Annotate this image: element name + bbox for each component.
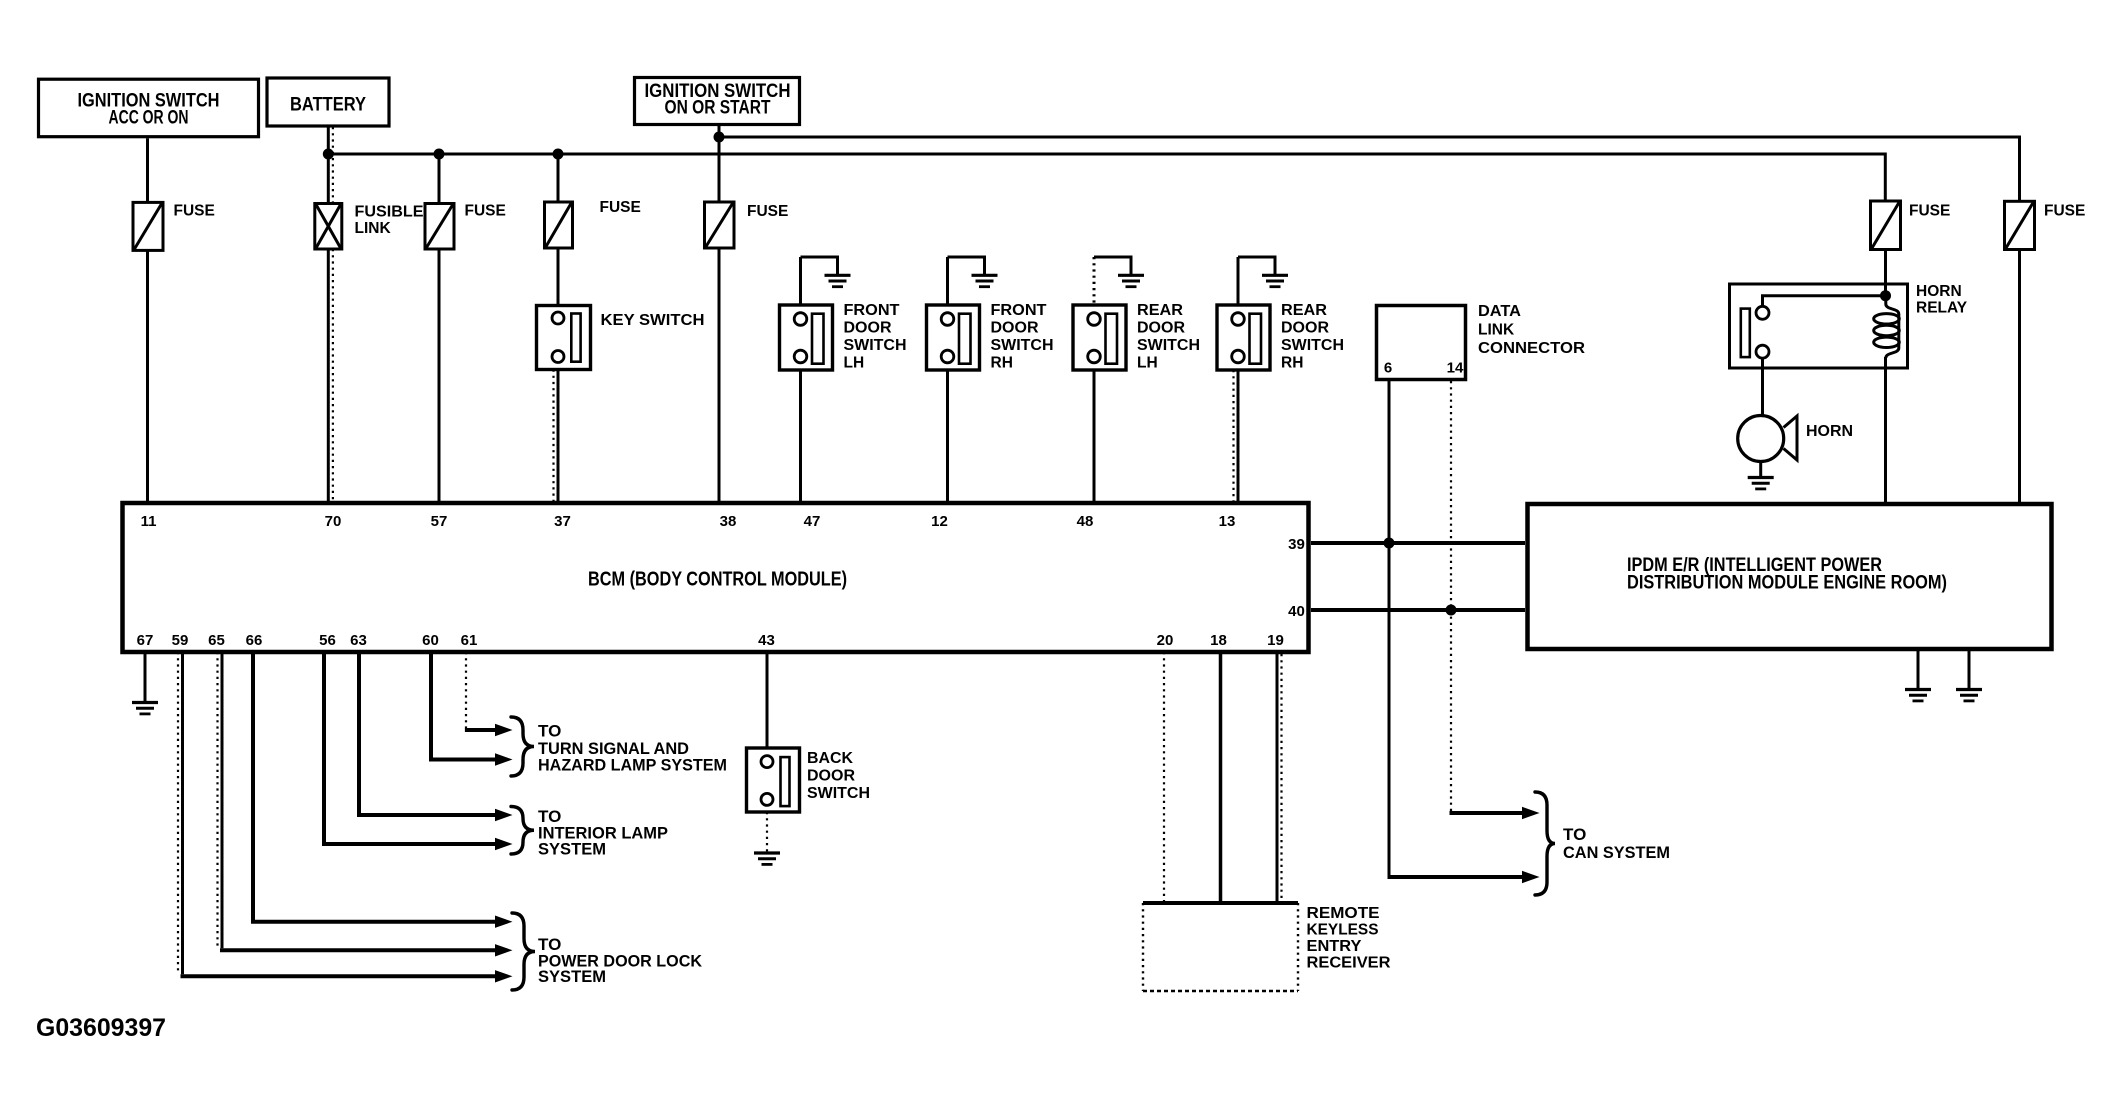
svg-text:DOOR: DOOR [1281, 320, 1329, 337]
svg-text:FRONT: FRONT [991, 302, 1048, 319]
svg-text:FUSIBLE: FUSIBLE [355, 204, 424, 221]
svg-text:DOOR: DOOR [844, 320, 892, 337]
wire: BCM pin 18 to keyless receiver [1219, 652, 1223, 903]
wire: bus to fuse (57) [438, 154, 441, 204]
svg-text:SYSTEM: SYSTEM [538, 840, 606, 859]
svg-text:SWITCH: SWITCH [1281, 337, 1344, 354]
wire: fuse to IPDM [2018, 250, 2021, 503]
wire: fusible link to BCM pin 70 (solid+stripe) [327, 249, 330, 501]
key switch [537, 306, 591, 370]
svg-text:BACK: BACK [807, 750, 854, 767]
wire: fuse to key switch [557, 248, 560, 313]
svg-text:TO: TO [1563, 825, 1586, 844]
brace (turn signal group) [511, 717, 534, 776]
junction: wire 40 / DLC pin 14 [1446, 605, 1457, 616]
ground (rear door switch LH) [1118, 275, 1144, 286]
svg-text:RELAY: RELAY [1916, 300, 1968, 317]
wire: ON/START box down to junction [718, 125, 721, 138]
switch: front door switch LH [780, 305, 833, 370]
IPDM E/R box [1528, 504, 2052, 649]
back door switch [747, 748, 800, 812]
arrow (to turn signal, pin 60) [495, 753, 513, 765]
arrow (to power door lock, pin 65) [495, 944, 513, 956]
wire: IPDM to ground 2 [1968, 651, 1971, 689]
svg-text:REAR: REAR [1137, 302, 1183, 319]
arrow (to interior lamp, pin 63) [495, 809, 513, 821]
junction: wire 39 / DLC pin 6 [1384, 538, 1395, 549]
svg-text:47: 47 [804, 513, 821, 530]
svg-text:13: 13 [1219, 513, 1236, 530]
svg-text:12: 12 [931, 513, 948, 530]
svg-text:19: 19 [1267, 632, 1284, 649]
power source box: IGNITION SWITCH ON OR START [635, 78, 800, 125]
wire: front door switch RH riser to ground [946, 257, 949, 305]
switch: rear door switch LH [1073, 305, 1126, 370]
fusible link [315, 204, 342, 250]
wire: rear door switch LH to BCM [1093, 370, 1096, 501]
wire: pin 66 to power door lock system [253, 652, 496, 922]
svg-text:FUSE: FUSE [600, 199, 641, 216]
wire 40: BCM to IPDM (CAN L) [1311, 608, 1525, 612]
wire: front door switch LH riser to ground [799, 257, 802, 305]
junction: bus to fuse 57 [434, 149, 445, 160]
wire: rear door switch RH riser to ground [1237, 257, 1240, 305]
svg-text:14: 14 [1447, 360, 1464, 377]
ground (horn) [1748, 478, 1774, 489]
wire: relay contact to horn [1761, 358, 1764, 416]
ground (front door switch LH) [825, 275, 851, 286]
svg-text:RH: RH [1281, 355, 1303, 372]
wire: BCM pin 19 to keyless receiver (solid+stripe) [1276, 652, 1279, 903]
svg-text:LINK: LINK [355, 220, 392, 237]
fuse (horn relay feed) [1871, 201, 1901, 250]
ground (rear door switch RH) [1262, 275, 1288, 286]
svg-text:SWITCH: SWITCH [1137, 337, 1200, 354]
svg-text:ACC OR ON: ACC OR ON [109, 108, 189, 129]
wire: rear door switch RH to BCM (stripe+solid) [1232, 370, 1234, 501]
svg-text:LH: LH [1137, 355, 1158, 372]
wire: DLC pin 14 down [1450, 381, 1452, 812]
svg-text:HORN: HORN [1916, 283, 1962, 300]
wire: pin 61 to turn signal system [465, 652, 467, 729]
svg-text:37: 37 [554, 513, 571, 530]
junction: relay coil feed [1880, 290, 1891, 301]
ground (IPDM 2) [1956, 690, 1982, 701]
switch: front door switch RH [927, 305, 980, 370]
wire: front door switch LH to BCM [799, 370, 802, 501]
svg-text:FUSE: FUSE [747, 203, 788, 220]
wire: fuse to BCM pin 57 [438, 249, 441, 501]
svg-text:RECEIVER: RECEIVER [1307, 955, 1391, 972]
svg-text:ENTRY: ENTRY [1307, 938, 1363, 955]
svg-text:FUSE: FUSE [174, 203, 215, 220]
svg-text:6: 6 [1384, 360, 1392, 377]
svg-text:20: 20 [1157, 632, 1174, 649]
wire: junction to fuse 38 [718, 137, 721, 202]
svg-text:57: 57 [431, 513, 448, 530]
wire: pin 65 to power door lock system (stripe+solid) [216, 652, 218, 948]
svg-text:56: 56 [319, 632, 336, 649]
wire: horn to ground [1759, 462, 1762, 478]
fuse (ACC feed) [133, 202, 163, 250]
wire: IPDM to ground 1 [1917, 651, 1920, 689]
svg-text:67: 67 [137, 632, 154, 649]
svg-text:HORN: HORN [1806, 423, 1853, 440]
svg-text:ON OR START: ON OR START [665, 98, 771, 119]
svg-text:BATTERY: BATTERY [290, 95, 366, 116]
brace (CAN system group) [1535, 792, 1555, 895]
svg-text:SWITCH: SWITCH [807, 785, 870, 802]
wire: key switch to BCM pin 37 (stripe+solid) [552, 370, 554, 502]
svg-text:HAZARD LAMP SYSTEM: HAZARD LAMP SYSTEM [538, 756, 727, 775]
wire: relay coil to IPDM [1884, 357, 1887, 502]
svg-text:11: 11 [141, 513, 157, 530]
svg-text:40: 40 [1288, 603, 1305, 620]
svg-text:FUSE: FUSE [1909, 203, 1950, 220]
svg-text:SYSTEM: SYSTEM [538, 967, 606, 986]
BCM (body control module) box [123, 503, 1309, 652]
wire: pin 56 to interior lamp system [324, 652, 496, 844]
svg-text:59: 59 [172, 632, 189, 649]
wire: BCM pin 20 to keyless receiver [1163, 652, 1165, 903]
wire: front door switch RH to BCM [946, 370, 949, 501]
wire: BCM pin 43 to back door switch [766, 652, 769, 748]
fuse (key switch feed) [545, 202, 573, 248]
ground (BCM pin 67) [132, 703, 158, 714]
wire: lower supply bus [328, 154, 1885, 201]
wire: back door switch to ground [766, 812, 768, 852]
svg-text:38: 38 [720, 513, 737, 530]
ground (front door switch RH) [972, 275, 998, 286]
wire: fuse to horn relay coil [1884, 250, 1887, 297]
wire: pin 59 to power door lock system (stripe+solid) [177, 652, 179, 974]
junction: ON/START / upper bus [714, 132, 725, 143]
wire: DLC pin 6 down (K-line) [1388, 381, 1391, 876]
svg-text:18: 18 [1210, 632, 1227, 649]
svg-text:RH: RH [991, 355, 1013, 372]
svg-text:SWITCH: SWITCH [991, 337, 1054, 354]
svg-text:70: 70 [325, 513, 342, 530]
junction: battery / lower bus [323, 149, 334, 160]
ground (back door switch) [754, 853, 780, 864]
wire: fuse to BCM pin 38 [718, 248, 721, 501]
brace (power door lock group) [512, 913, 535, 990]
wire: pin 60 to turn signal system [431, 652, 496, 760]
wire: ACC box to fuse [146, 138, 149, 202]
wire: BCM pin 67 to ground [144, 652, 147, 702]
power source box: IGNITION SWITCH ACC OR ON [39, 79, 259, 137]
svg-text:DOOR: DOOR [1137, 320, 1185, 337]
relay coil [1874, 295, 1900, 358]
arrow (to interior lamp, pin 56) [495, 838, 513, 850]
arrow (to power door lock, pin 66) [495, 916, 513, 928]
wire 39: BCM to IPDM (CAN H) [1311, 541, 1525, 545]
data link connector [1377, 306, 1466, 380]
svg-text:FUSE: FUSE [465, 203, 506, 220]
arrow (to CAN, upper) [1522, 807, 1540, 819]
wire: DLC pin 14 to CAN system [1450, 811, 1523, 815]
wire: rear door switch LH riser to ground [1093, 257, 1096, 305]
brace (interior lamp group) [511, 807, 534, 855]
svg-text:REMOTE: REMOTE [1307, 905, 1380, 922]
svg-text:G03609397: G03609397 [36, 1014, 166, 1042]
arrow (to power door lock, pin 59) [495, 970, 513, 982]
fuse (IPDM feed) [2005, 201, 2035, 249]
svg-text:61: 61 [461, 632, 478, 649]
wire: bus to fuse (37) [557, 154, 560, 202]
svg-text:63: 63 [350, 632, 367, 649]
svg-text:65: 65 [208, 632, 225, 649]
svg-text:39: 39 [1288, 536, 1305, 553]
svg-text:CONNECTOR: CONNECTOR [1478, 340, 1585, 357]
svg-text:DOOR: DOOR [807, 768, 855, 785]
svg-text:66: 66 [246, 632, 263, 649]
svg-text:LH: LH [844, 355, 865, 372]
svg-text:TO: TO [538, 722, 561, 741]
svg-text:DATA: DATA [1478, 303, 1521, 320]
svg-text:KEY SWITCH: KEY SWITCH [601, 312, 705, 329]
svg-text:KEYLESS: KEYLESS [1307, 922, 1379, 939]
wire: pin 63 to interior lamp system [359, 652, 496, 815]
svg-text:BCM (BODY CONTROL MODULE): BCM (BODY CONTROL MODULE) [588, 569, 847, 591]
wire: battery to fusible link (solid+stripe) [327, 127, 330, 204]
fuse (pin 57 feed) [425, 204, 454, 250]
junction: bus to fuse 37 [553, 149, 564, 160]
svg-text:REAR: REAR [1281, 302, 1327, 319]
svg-text:SWITCH: SWITCH [844, 337, 907, 354]
wire: fuse to BCM pin 11 [146, 250, 149, 501]
wire: upper supply bus [719, 137, 2020, 201]
ground (IPDM 1) [1905, 690, 1931, 701]
fuse (pin 38 feed) [705, 202, 735, 248]
svg-text:48: 48 [1077, 513, 1094, 530]
power source box: BATTERY [267, 78, 389, 126]
svg-text:DOOR: DOOR [991, 320, 1039, 337]
svg-text:43: 43 [758, 632, 775, 649]
svg-text:LINK: LINK [1478, 322, 1515, 339]
switch: rear door switch RH [1217, 305, 1270, 370]
svg-text:DISTRIBUTION MODULE ENGINE ROO: DISTRIBUTION MODULE ENGINE ROOM) [1627, 573, 1947, 594]
svg-text:60: 60 [422, 632, 439, 649]
svg-text:FRONT: FRONT [844, 302, 901, 319]
svg-text:CAN SYSTEM: CAN SYSTEM [1563, 843, 1670, 862]
svg-text:FUSE: FUSE [2044, 203, 2085, 220]
arrow (to turn signal, pin 61) [495, 724, 513, 736]
horn relay [1730, 284, 1908, 368]
horn [1738, 416, 1797, 462]
remote keyless entry receiver box [1143, 903, 1298, 991]
arrow (to CAN, lower) [1522, 871, 1540, 883]
wire: DLC pin 6 to CAN system [1388, 875, 1523, 879]
